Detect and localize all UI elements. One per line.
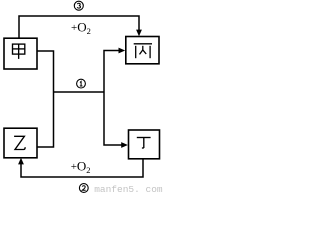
label ①	[77, 79, 86, 88]
svg-text:manfen5. com: manfen5. com	[94, 184, 163, 195]
arrowhead into 丙 left	[119, 48, 126, 54]
wire ②: from 丁 bottom down, across, up to 乙 bottom	[21, 159, 143, 177]
box 丙	[126, 37, 159, 64]
box 甲	[4, 38, 37, 69]
wire ③: from 甲 top up, across, down to 丙 top	[19, 16, 139, 38]
svg-text:+O2: +O2	[71, 158, 91, 175]
label ③	[74, 1, 83, 10]
arrowhead into 丙 top	[136, 30, 142, 37]
box 丁	[129, 130, 160, 159]
box 乙	[4, 128, 37, 158]
wire bus: 甲 right stub, vertical bus, 乙 right stub	[37, 51, 54, 147]
label 乙	[14, 136, 25, 149]
arrowhead into 乙 bottom	[18, 158, 24, 165]
label ②	[79, 184, 88, 193]
svg-text:+O2: +O2	[71, 19, 91, 36]
arrowhead into 丁 left	[121, 142, 128, 148]
label 甲	[13, 44, 25, 59]
label 丙	[134, 44, 152, 58]
label 丁	[137, 138, 151, 149]
wire ①: horizontal from bus to branch point	[54, 91, 105, 93]
wire branch: vertical bus to 丙 and 丁	[104, 51, 122, 146]
